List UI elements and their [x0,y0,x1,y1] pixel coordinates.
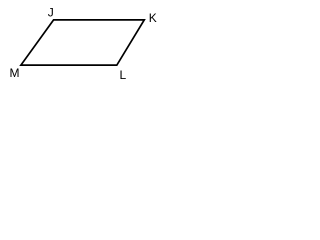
svg-text:M: M [10,66,20,80]
parallelogram JKLM [21,20,144,65]
svg-text:K: K [149,11,157,25]
svg-text:J: J [48,6,54,20]
svg-text:L: L [120,68,127,82]
